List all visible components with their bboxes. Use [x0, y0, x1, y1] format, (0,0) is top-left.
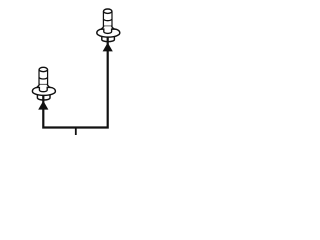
wire: left vertical + bottom horizontal + right vertical	[43, 37, 107, 127]
arrow at bolt B1	[38, 101, 48, 110]
arrow at bolt B2	[103, 43, 113, 52]
wire: center stub junction	[75, 128, 77, 136]
terminal bolt B1 (left)	[32, 67, 55, 100]
terminal bolt B2 (top right)	[97, 9, 120, 42]
